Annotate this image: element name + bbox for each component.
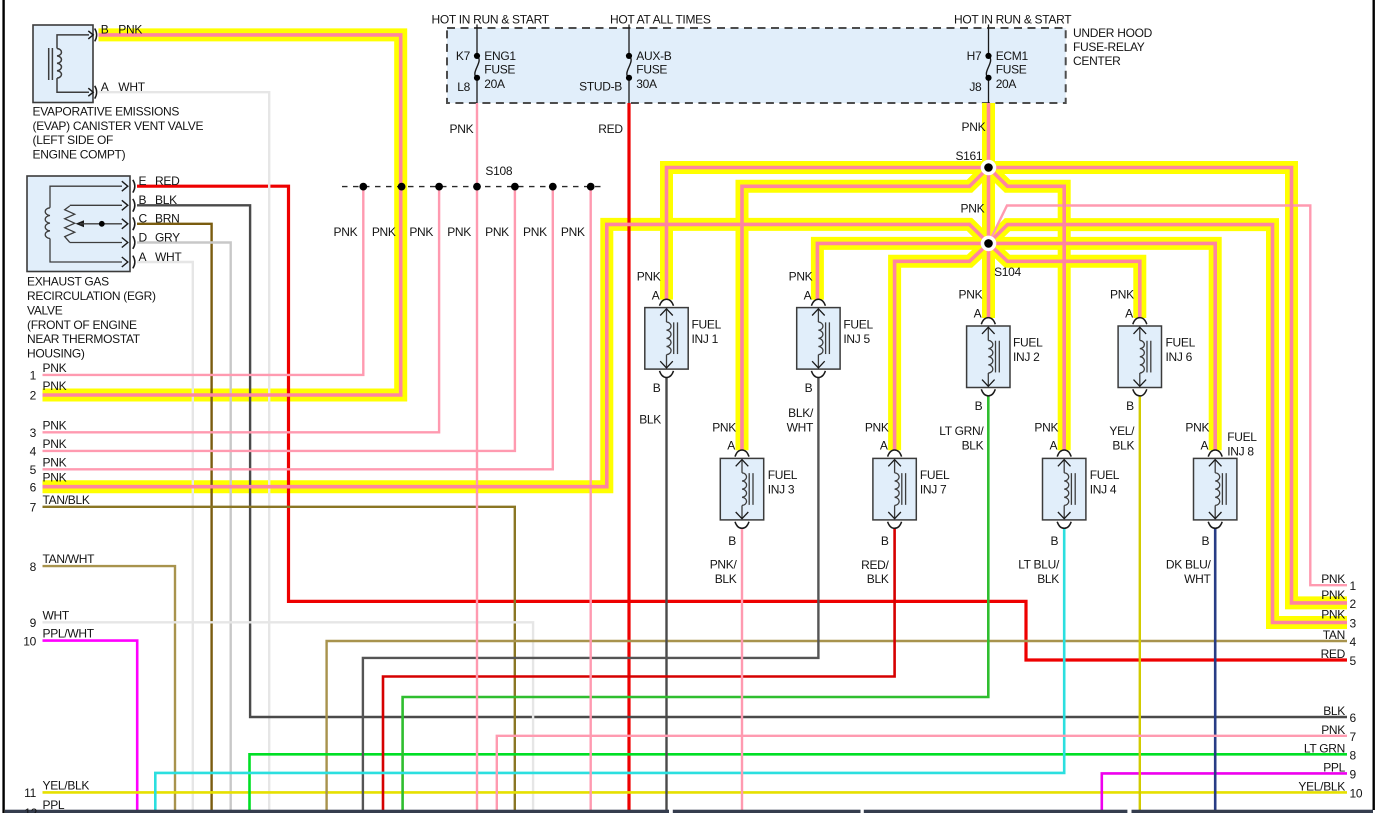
splice S108 dot 2 <box>398 183 406 191</box>
svg-text:FUEL: FUEL <box>1013 336 1043 350</box>
bottom connector bar segment 3 <box>864 810 1128 813</box>
wire WHT left wire 9 down to bottom connector <box>43 622 534 810</box>
svg-text:6: 6 <box>1350 711 1357 725</box>
svg-text:6: 6 <box>30 480 37 494</box>
svg-text:FUEL: FUEL <box>1166 336 1196 350</box>
wire PNK S104 lower-right branch to fuel inj 6 core <box>989 243 1140 318</box>
svg-text:PNK: PNK <box>447 225 471 239</box>
EGR valve box <box>27 176 135 272</box>
svg-text:YEL/BLK: YEL/BLK <box>1298 779 1345 793</box>
fuel injector FUEL INJ 5 <box>797 299 840 377</box>
svg-text:FUSE: FUSE <box>636 62 667 76</box>
splice S108 dashed bus <box>342 186 604 188</box>
wire BLK/WHT fuel inj 5 pin B to bottom connector <box>363 377 819 810</box>
svg-text:(FRONT OF ENGINE: (FRONT OF ENGINE <box>27 318 137 332</box>
svg-text:FUSE: FUSE <box>484 62 515 76</box>
wire PNK S161 left branch to fuel inj 1 core <box>667 168 989 300</box>
wire PNK S161 right branch to right edge wire 2 highlight <box>989 168 1348 603</box>
wire PNK ECM1 fuse to S161 core <box>987 103 991 168</box>
svg-text:PNK: PNK <box>959 288 983 302</box>
wire PNK S104 mid-right branch to fuel inj 8 core <box>989 243 1216 450</box>
svg-text:LT BLU/: LT BLU/ <box>1018 558 1060 572</box>
wire TAN/BLK left wire 7 down to bottom connector <box>43 507 515 810</box>
svg-text:8: 8 <box>1350 748 1357 762</box>
svg-text:PNK: PNK <box>962 120 986 134</box>
svg-text:30A: 30A <box>636 77 657 91</box>
wire LT GRN/BLK fuel inj 2 pin B to bottom connector <box>403 396 989 810</box>
svg-text:PNK: PNK <box>523 225 547 239</box>
svg-text:A: A <box>139 250 147 264</box>
svg-text:PNK: PNK <box>712 421 736 435</box>
wire PNK splice S108-5 to left edge wire 4 <box>43 187 515 451</box>
svg-text:TAN/BLK: TAN/BLK <box>43 493 90 507</box>
right page border <box>1373 0 1375 810</box>
svg-text:B: B <box>728 534 736 548</box>
svg-text:BLK: BLK <box>962 438 984 452</box>
wire PNK S104 upper-left branch to left edge wire 6 core <box>43 224 989 486</box>
svg-text:PNK: PNK <box>334 225 358 239</box>
svg-text:5: 5 <box>1350 654 1357 668</box>
svg-text:GRY: GRY <box>155 230 180 244</box>
splice S108 dot 1 <box>359 183 367 191</box>
wire YEL/BLK left wire 11 to right edge wire 10 <box>43 791 1348 794</box>
svg-text:LT GRN/: LT GRN/ <box>939 424 984 438</box>
svg-text:INJ 4: INJ 4 <box>1090 482 1117 496</box>
svg-text:(EVAP) CANISTER VENT VALVE: (EVAP) CANISTER VENT VALVE <box>33 119 204 133</box>
splice S104 junction dot <box>981 236 997 252</box>
svg-text:B: B <box>653 381 661 395</box>
svg-text:A: A <box>727 439 735 453</box>
svg-text:A: A <box>101 80 109 94</box>
wire RED AUX-B fuse down to bottom connector <box>627 103 630 810</box>
wire PNK S104 mid-left branch to fuel inj 5 highlight <box>817 243 988 299</box>
svg-text:B: B <box>101 23 109 37</box>
svg-text:INJ 7: INJ 7 <box>920 482 947 496</box>
svg-text:3: 3 <box>1350 617 1357 631</box>
wire PNK S161 left branch to fuel inj 1 highlight <box>667 168 989 300</box>
svg-text:S108: S108 <box>485 164 512 178</box>
svg-text:B: B <box>805 381 813 395</box>
svg-text:4: 4 <box>1350 635 1357 649</box>
svg-text:2: 2 <box>1350 597 1357 611</box>
wire PNK S161 to S104 core <box>987 168 991 244</box>
wire PNK S104 lower-left branch to fuel inj 7 highlight <box>895 243 989 450</box>
svg-text:PNK: PNK <box>1321 723 1345 737</box>
svg-text:11: 11 <box>24 786 36 800</box>
svg-text:PPL/WHT: PPL/WHT <box>43 627 95 641</box>
wire PNK EVAP valve pin B to left edge wire 2 highlight <box>43 35 401 395</box>
svg-text:PNK: PNK <box>43 379 67 393</box>
wire LT BLU/BLK fuel inj 4 pin B to bottom connector <box>155 528 1064 810</box>
svg-text:PNK: PNK <box>865 421 889 435</box>
wire PNK S104 lower-right branch to fuel inj 6 highlight <box>989 243 1140 318</box>
wire PNK S104 mid-right branch to fuel inj 8 highlight <box>989 243 1216 450</box>
wire GRY EGR pin D down to bottom connector <box>137 243 231 811</box>
svg-text:WHT: WHT <box>1184 572 1211 586</box>
splice S108 dot 6 <box>549 183 557 191</box>
splice S108 dot 7 <box>587 183 595 191</box>
wire PNK ENG1 fuse through splice S108 to bottom connector <box>476 103 478 810</box>
wire PNK/BLK fuel inj 3 pin B down to bottom connector <box>741 528 743 810</box>
wire WHT EGR pin A down to bottom connector <box>137 262 193 810</box>
svg-text:YEL/BLK: YEL/BLK <box>43 778 90 792</box>
svg-text:A: A <box>880 439 888 453</box>
svg-text:A: A <box>1125 307 1133 321</box>
svg-text:H7: H7 <box>967 49 982 63</box>
wire PNK S104 to right edge wire 1 <box>989 206 1348 586</box>
wire PNK S161 lower-left branch to fuel inj 3 core <box>742 168 989 451</box>
svg-text:DK BLU/: DK BLU/ <box>1166 558 1212 572</box>
wire PNK S104 down to fuel inj 2 core <box>987 243 991 318</box>
svg-text:PNK: PNK <box>1034 421 1058 435</box>
svg-text:ENGINE COMPT): ENGINE COMPT) <box>33 147 126 161</box>
svg-text:C: C <box>139 212 148 226</box>
svg-text:INJ 5: INJ 5 <box>843 332 870 346</box>
splice S108 dot 5 <box>511 183 519 191</box>
svg-text:YEL/: YEL/ <box>1109 424 1135 438</box>
bottom connector bar segment 4 <box>1132 810 1374 813</box>
left page border <box>2 0 4 813</box>
svg-text:FUEL: FUEL <box>920 468 950 482</box>
svg-text:WHT: WHT <box>787 421 814 435</box>
svg-text:9: 9 <box>1350 767 1357 781</box>
wire PPL/WHT left wire 10 down to bottom connector <box>43 641 138 810</box>
svg-text:A: A <box>974 307 982 321</box>
svg-text:PNK: PNK <box>1321 572 1345 586</box>
svg-text:WHT: WHT <box>118 80 145 94</box>
svg-text:BLK: BLK <box>867 572 889 586</box>
wire PNK S104 mid-left branch to fuel inj 5 core <box>817 243 988 299</box>
svg-text:PNK: PNK <box>485 225 509 239</box>
svg-text:VALVE: VALVE <box>27 303 63 317</box>
svg-text:PNK: PNK <box>1110 288 1134 302</box>
svg-text:4: 4 <box>30 445 37 459</box>
fuel injector FUEL INJ 8 <box>1194 450 1237 528</box>
svg-text:PPL: PPL <box>43 798 65 812</box>
svg-text:INJ 8: INJ 8 <box>1227 445 1254 459</box>
svg-text:PNK: PNK <box>1321 608 1345 622</box>
svg-text:BLK: BLK <box>715 572 737 586</box>
wire LT GRN bottom connector to right edge wire 8 <box>250 754 1348 810</box>
svg-text:S104: S104 <box>994 265 1021 279</box>
svg-text:ENG1: ENG1 <box>484 49 516 63</box>
svg-text:10: 10 <box>23 634 36 648</box>
bottom connector bar segment 2 <box>673 810 861 813</box>
svg-text:B: B <box>1126 399 1134 413</box>
svg-text:(LEFT SIDE OF: (LEFT SIDE OF <box>33 133 114 147</box>
wire PNK S104 lower-left branch to fuel inj 7 core <box>895 243 989 450</box>
fuel injector FUEL INJ 4 <box>1043 450 1086 528</box>
svg-text:PNK/: PNK/ <box>710 558 738 572</box>
wire PNK bottom connector to right edge wire 7 <box>497 736 1347 810</box>
svg-text:S161: S161 <box>955 149 982 163</box>
svg-text:WHT: WHT <box>43 608 70 622</box>
svg-text:FUEL: FUEL <box>768 468 798 482</box>
svg-text:HOT AT ALL TIMES: HOT AT ALL TIMES <box>610 13 711 27</box>
svg-text:9: 9 <box>30 616 37 630</box>
svg-text:RED/: RED/ <box>861 558 889 572</box>
svg-text:20A: 20A <box>484 77 505 91</box>
svg-text:B: B <box>975 399 983 413</box>
svg-text:PNK: PNK <box>961 202 985 216</box>
svg-text:BLK: BLK <box>1112 438 1134 452</box>
svg-text:BLK: BLK <box>1323 704 1345 718</box>
wire BRN EGR pin C down to bottom connector <box>137 224 212 810</box>
svg-text:TAN/WHT: TAN/WHT <box>43 552 96 566</box>
svg-text:PNK: PNK <box>372 225 396 239</box>
fuse wire ECM1 <box>988 25 990 57</box>
wire RED EGR pin E to right edge wire 5 <box>137 186 1347 660</box>
svg-text:FUEL: FUEL <box>1090 468 1120 482</box>
wire PNK S161 to S104 highlight <box>982 168 995 244</box>
svg-text:A: A <box>1049 439 1057 453</box>
svg-text:PNK: PNK <box>637 270 661 284</box>
wire WHT EVAP pin A down to bottom connector <box>99 92 270 810</box>
wire PNK splice S108-6 to left edge wire 5 <box>43 187 553 470</box>
wire PNK S104 down to fuel inj 2 highlight <box>982 243 995 318</box>
wire PNK S161 lower-right branch to fuel inj 4 highlight <box>989 168 1065 451</box>
svg-text:7: 7 <box>1350 730 1357 744</box>
svg-text:1: 1 <box>1350 579 1357 593</box>
svg-text:ECM1: ECM1 <box>996 49 1029 63</box>
svg-text:10: 10 <box>1350 786 1363 800</box>
svg-text:12: 12 <box>24 806 37 813</box>
svg-text:PNK: PNK <box>1321 588 1345 602</box>
svg-text:PNK: PNK <box>789 270 813 284</box>
svg-text:BLK: BLK <box>639 413 661 427</box>
svg-text:PNK: PNK <box>561 225 585 239</box>
svg-text:RED: RED <box>1321 647 1346 661</box>
svg-text:INJ 2: INJ 2 <box>1013 350 1040 364</box>
wire PNK ECM1 fuse to S161 highlight <box>982 103 995 168</box>
fuse wire AUX-B <box>628 25 630 57</box>
svg-text:PNK: PNK <box>43 418 67 432</box>
svg-text:BLK/: BLK/ <box>788 406 814 420</box>
svg-text:1: 1 <box>30 369 37 383</box>
wire PNK S104 upper-left branch to left edge wire 6 highlight <box>43 224 989 486</box>
EVAP canister vent valve U-EVAP box <box>33 25 97 103</box>
svg-text:A: A <box>652 289 660 303</box>
svg-text:HOT IN RUN & START: HOT IN RUN & START <box>432 13 550 27</box>
svg-text:PNK: PNK <box>409 225 433 239</box>
wire TAN/WHT left wire 8 down to bottom connector <box>43 566 176 810</box>
svg-text:8: 8 <box>30 560 37 574</box>
wire BLK fuel inj 1 pin B down to bottom connector <box>665 377 667 810</box>
svg-text:PNK: PNK <box>450 122 474 136</box>
svg-text:RECIRCULATION (EGR): RECIRCULATION (EGR) <box>27 289 156 303</box>
svg-text:RED: RED <box>598 122 623 136</box>
splice S108 dot 3 <box>435 183 443 191</box>
svg-text:WHT: WHT <box>155 250 182 264</box>
under hood fuse-relay center box <box>447 28 1066 103</box>
svg-text:PNK: PNK <box>118 23 142 37</box>
wire PNK S161 lower-right branch to fuel inj 4 core <box>989 168 1065 451</box>
svg-text:2: 2 <box>30 389 37 403</box>
svg-text:UNDER HOOD: UNDER HOOD <box>1073 26 1153 40</box>
wire DK BLU/WHT fuel inj 8 pin B down to bottom connector <box>1214 528 1217 810</box>
svg-text:PNK: PNK <box>43 437 67 451</box>
svg-text:A: A <box>804 289 812 303</box>
svg-text:FUSE-RELAY: FUSE-RELAY <box>1073 40 1145 54</box>
fuel injector FUEL INJ 3 <box>720 450 763 528</box>
svg-text:INJ 1: INJ 1 <box>692 332 719 346</box>
wire PNK EVAP valve pin B to left edge wire 2 core <box>43 35 401 395</box>
wire PNK S104 upper-right branch to right edge wire 3 core <box>989 225 1348 623</box>
bottom connector bar segment 1 <box>5 810 669 813</box>
svg-text:PPL: PPL <box>1323 760 1345 774</box>
wire PNK splice S108-7 down to bottom connector <box>590 187 592 810</box>
wire YEL/BLK fuel inj 6 pin B down to bottom connector <box>1139 396 1141 810</box>
svg-text:B: B <box>139 193 147 207</box>
svg-text:STUD-B: STUD-B <box>579 80 622 94</box>
svg-text:CENTER: CENTER <box>1073 54 1121 68</box>
svg-text:J8: J8 <box>969 80 982 94</box>
svg-text:TAN: TAN <box>1323 628 1345 642</box>
svg-text:HOUSING): HOUSING) <box>27 347 85 361</box>
svg-text:PNK: PNK <box>43 471 67 485</box>
fuel injector FUEL INJ 1 <box>645 299 688 377</box>
svg-text:PNK: PNK <box>43 361 67 375</box>
svg-text:PNK: PNK <box>43 455 67 469</box>
svg-text:A: A <box>1200 439 1208 453</box>
svg-text:LT GRN: LT GRN <box>1304 741 1345 755</box>
wire PPL bottom connector to right edge wire 9 <box>1102 773 1347 810</box>
svg-text:BRN: BRN <box>155 212 179 226</box>
wire RED/BLK fuel inj 7 pin B to bottom connector <box>383 528 895 810</box>
svg-text:EVAPORATIVE EMISSIONS: EVAPORATIVE EMISSIONS <box>33 105 180 119</box>
svg-text:INJ 6: INJ 6 <box>1166 350 1193 364</box>
svg-text:AUX-B: AUX-B <box>636 49 671 63</box>
svg-text:FUEL: FUEL <box>843 318 873 332</box>
wire BLK EGR pin B to right edge wire 6 <box>137 205 1347 717</box>
svg-text:B: B <box>1050 534 1058 548</box>
svg-text:FUSE: FUSE <box>996 62 1027 76</box>
wire PNK S104 upper-right branch to right edge wire 3 highlight <box>989 225 1348 623</box>
svg-text:INJ 3: INJ 3 <box>768 482 795 496</box>
svg-text:EXHAUST GAS: EXHAUST GAS <box>27 274 109 288</box>
svg-text:7: 7 <box>30 501 37 515</box>
svg-text:NEAR THERMOSTAT: NEAR THERMOSTAT <box>27 332 141 346</box>
splice S161 junction dot <box>981 160 997 176</box>
svg-text:E: E <box>139 174 147 188</box>
svg-text:RED: RED <box>155 174 180 188</box>
svg-text:B: B <box>1201 534 1209 548</box>
wire PNK S161 lower-left branch to fuel inj 3 highlight <box>742 168 989 451</box>
fuel injector FUEL INJ 2 <box>967 318 1010 396</box>
svg-text:BLK: BLK <box>1037 572 1059 586</box>
svg-text:BLK: BLK <box>155 193 177 207</box>
svg-text:FUEL: FUEL <box>1227 430 1257 444</box>
svg-text:FUEL: FUEL <box>692 318 722 332</box>
svg-text:L8: L8 <box>457 80 470 94</box>
splice S108 dot 4 <box>473 183 481 191</box>
svg-text:PNK: PNK <box>1185 421 1209 435</box>
svg-text:5: 5 <box>30 463 37 477</box>
svg-text:HOT IN RUN & START: HOT IN RUN & START <box>954 13 1072 27</box>
svg-text:K7: K7 <box>456 49 471 63</box>
svg-text:D: D <box>139 230 148 244</box>
fuel injector FUEL INJ 6 <box>1118 318 1161 396</box>
fuel injector FUEL INJ 7 <box>873 450 916 528</box>
svg-text:3: 3 <box>30 426 37 440</box>
wire PNK splice S108-3 to left edge wire 3 <box>43 187 440 433</box>
wire PNK S161 right branch to right edge wire 2 core <box>989 168 1348 603</box>
svg-text:B: B <box>881 534 889 548</box>
svg-text:20A: 20A <box>996 77 1017 91</box>
fuse wire ENG1 <box>476 25 478 57</box>
wire TAN bottom connector to right edge wire 4 <box>327 641 1347 810</box>
wire PNK splice S108-1 to left edge wire 1 <box>43 187 364 375</box>
